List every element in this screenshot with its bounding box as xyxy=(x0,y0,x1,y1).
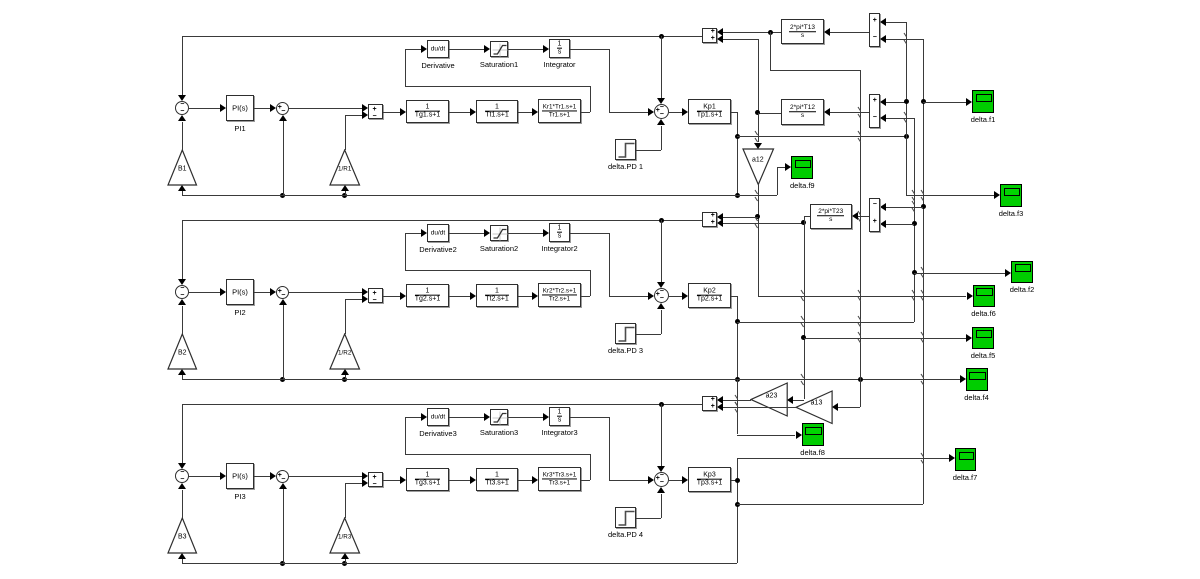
label delta.f6 xyxy=(971,309,996,318)
scope delta.f1 xyxy=(972,90,994,113)
arrow into delta.f9 xyxy=(785,163,791,171)
wire: S1b to subtract block xyxy=(289,108,362,109)
arrow into saturation xyxy=(484,45,490,53)
junction Ptie13 branch xyxy=(768,30,773,35)
wire: S1a to PI1 xyxy=(189,108,221,109)
arrow into sum S2c top xyxy=(657,282,665,288)
vertical bus delta.f3 xyxy=(923,39,924,505)
arrow into delta.f7 xyxy=(949,454,955,462)
wire: delta.f2 branch right xyxy=(737,322,914,323)
tie sum block T12 xyxy=(869,94,881,128)
wire crossing hop at 906.4,38.5 xyxy=(903,32,908,45)
arrow into subtract block + input xyxy=(362,472,368,480)
wire: tie-line signal to area1 sums xyxy=(182,36,702,37)
label Saturation2 xyxy=(480,244,518,253)
wire: a23 output to tie sum3 xyxy=(723,400,751,401)
wire crossing hop at 923.3,458.3 xyxy=(920,452,925,465)
wire: frequency feedback up to B2 xyxy=(182,374,183,379)
wire: governor to turbine TF xyxy=(449,296,470,297)
label Saturation3 xyxy=(480,428,518,437)
arrow into delta.f8 xyxy=(796,431,802,439)
gain a13 xyxy=(795,390,834,426)
label PI1 xyxy=(234,124,245,133)
wire: into scope delta.f7 xyxy=(737,458,949,459)
arrow tie sum3 input a13 xyxy=(717,403,723,411)
wire crossing hop at 757.6,195.4 xyxy=(754,189,759,202)
junction T23 plus input xyxy=(912,221,917,226)
wire: 1/R2 output right xyxy=(345,299,362,300)
arrow into T23 sum plus xyxy=(880,220,886,228)
wire: a12 signal to scope delta.f6 xyxy=(758,296,967,297)
wire: derivative to saturation xyxy=(449,49,484,50)
arrow into Kp2 xyxy=(682,292,688,300)
subtract block area 2 xyxy=(368,288,383,303)
tie sum block T13 xyxy=(869,13,881,47)
wire: area1 frequency feedback xyxy=(182,195,777,196)
sum S2b xyxy=(276,286,289,299)
wire: derivative loop up xyxy=(405,233,406,270)
wire crossing hop at 860.4,295.8 xyxy=(857,289,862,302)
arrow into 1/R2 gain xyxy=(341,369,349,375)
wire: derivative loop horizontal xyxy=(405,270,591,271)
label Derivative3 xyxy=(419,429,457,438)
arrow into B3 gain xyxy=(178,553,186,559)
junction Kp2/delta-f branch xyxy=(735,319,740,324)
arrow tie sum1 input Ptie12 xyxy=(717,35,723,43)
arrow T12 sum plus input xyxy=(880,98,886,106)
integrator block 1/s area 3 xyxy=(549,407,570,426)
wire: reheat output right xyxy=(581,296,590,297)
wire: area2 frequency feedback to delta.f4 xyxy=(182,379,960,380)
wire: reheat output up to derivative loop xyxy=(590,86,591,112)
arrow into PI3 xyxy=(220,472,226,480)
integrator block 1/s area 1 xyxy=(549,39,570,58)
wire: derivative loop horizontal xyxy=(405,86,591,87)
arrow into turbine TF xyxy=(470,476,476,484)
arrow tie sum2 input a12 xyxy=(717,213,723,221)
wire: feedback2 down to delta.f8 xyxy=(737,379,738,434)
wire: Ptie12 to tie sum1 xyxy=(723,39,758,40)
saturation block area 2 xyxy=(490,225,508,241)
transfer fcn 2*pi*T13/s xyxy=(781,19,824,44)
wire: area3 vertical delta.f3 bus segment xyxy=(737,458,738,563)
wire: B2 output up to S2a xyxy=(182,306,183,335)
arrow into derivative block xyxy=(421,45,427,53)
arrow T13 sum plus input xyxy=(880,18,886,26)
arrow into delta.f3 xyxy=(994,191,1000,199)
sum S1b xyxy=(276,102,289,115)
wire: PI1 to S1b xyxy=(254,108,270,109)
wire: Ptie13 across xyxy=(770,70,860,71)
label delta.f8 xyxy=(800,448,825,457)
label delta.f5 xyxy=(971,351,996,360)
wire: step output right xyxy=(636,150,661,151)
arrow into delta.f6 xyxy=(967,292,973,300)
wire: saturation to integrator xyxy=(508,49,543,50)
label delta.f4 xyxy=(964,393,989,402)
saturation block area 3 xyxy=(490,409,508,425)
PI controller PI1 xyxy=(226,95,254,121)
wire: T23 sum output to T23 block xyxy=(858,216,869,217)
arrow into derivative block xyxy=(421,413,427,421)
wire: integrator output to S2c xyxy=(609,296,648,297)
sum S3c (power sum area 3) xyxy=(654,472,669,487)
tie sum block T23 xyxy=(869,198,881,232)
junction feedback/1R1 xyxy=(342,193,347,198)
arrow into sum S2c bottom xyxy=(657,303,665,309)
wire: saturation to integrator xyxy=(508,233,543,234)
arrow tie sum3 input a23 xyxy=(717,396,723,404)
wire: governor to turbine TF xyxy=(449,112,470,113)
derivative block du/dt area 1 xyxy=(427,40,449,58)
wire: into derivative block xyxy=(405,49,421,50)
arrow into sum S1c bottom xyxy=(657,119,665,125)
step block delta.PD 1 xyxy=(615,139,636,160)
sum S1c (power sum area 1) xyxy=(654,104,669,119)
arrow into delta.f1 xyxy=(966,98,972,106)
wire: integrator output to S3c xyxy=(609,480,648,481)
arrow T12 sum minus input xyxy=(880,114,886,122)
wire: feedback up to S3b xyxy=(283,489,284,563)
wire: feedback up to 1/R3 xyxy=(345,558,346,563)
wire: tie signal down to sum S2a xyxy=(182,220,183,279)
wire: subtract to governor TF xyxy=(383,480,400,481)
wire: saturation to integrator xyxy=(508,417,543,418)
junction feedback2/a13 branch xyxy=(858,377,863,382)
vertical bus delta.f1 xyxy=(906,22,907,196)
sum S2a (ACE sum area 2) xyxy=(175,285,189,299)
arrow into saturation xyxy=(484,413,490,421)
wire crossing hop at 923.3,195.3 xyxy=(920,189,925,202)
reheat transfer fcn (Kr2*Tr2.s+1)/(Tr2.s+1) xyxy=(538,283,581,307)
wire crossing hop at 860.4,216.4 xyxy=(857,210,862,223)
wire: tie-line signal to area2 sums xyxy=(182,220,702,221)
junction T12 output xyxy=(755,110,760,115)
wire: Ptie23 to tie sum2 xyxy=(723,223,804,224)
junction delta.f1 scope feed xyxy=(921,99,926,104)
gain a23 xyxy=(750,382,789,418)
wire crossing hop at 860.4,112 xyxy=(857,106,862,119)
wire: 1/R3 output up xyxy=(345,483,346,518)
wire: derivative loop up xyxy=(405,49,406,86)
arrow into sum S2c left xyxy=(648,292,654,300)
wire: tie signal down to sum S1c xyxy=(661,36,662,98)
arrow into governor TF xyxy=(400,108,406,116)
wire: turbine to reheat TF xyxy=(518,296,532,297)
wire crossing hop at 803.6,321.6 xyxy=(800,315,805,328)
label Integrator2 xyxy=(541,244,577,253)
wire: integrator output right xyxy=(570,417,609,418)
arrow into delta.f2 xyxy=(1005,269,1011,277)
wire: T13 sum minus input xyxy=(886,39,923,40)
wire: step output right xyxy=(636,334,661,335)
arrow into T23 sum minus xyxy=(880,203,886,211)
arrow into a12 xyxy=(754,143,762,149)
wire: reheat output right xyxy=(581,480,590,481)
label delta.PD 1 xyxy=(608,162,643,171)
arrow into sum S3c bottom xyxy=(657,487,665,493)
scope delta.f5 xyxy=(972,327,994,350)
arrow into T13 block xyxy=(824,28,830,36)
label Saturation1 xyxy=(480,60,518,69)
label PI2 xyxy=(234,308,245,317)
arrow into integrator xyxy=(543,229,549,237)
power system TF Kp3/(Tp3.s+1) xyxy=(688,467,731,492)
wire: Ptie13 down to a13 xyxy=(860,70,861,380)
junction tie wire area2 xyxy=(659,218,664,223)
sum S1a (ACE sum area 1) xyxy=(175,101,189,115)
wire: into scope delta.f2 xyxy=(914,273,1005,274)
scope delta.f2 xyxy=(1011,261,1033,284)
wire: S2a to PI2 xyxy=(189,292,221,293)
wire crossing hop at 860.4,136 xyxy=(857,130,862,143)
wire: tie signal down to sum S2c xyxy=(661,220,662,282)
scope delta.f6 xyxy=(973,285,995,308)
integrator block 1/s area 2 xyxy=(549,223,570,242)
wire: tie signal down to sum S3a xyxy=(182,404,183,463)
junction delta.f1 on bus xyxy=(904,134,909,139)
wire: 1/R2 output up xyxy=(345,299,346,334)
arrow into B1 gain xyxy=(178,185,186,191)
wire: S3a to PI3 xyxy=(189,476,221,477)
wire: reheat output up to derivative loop xyxy=(590,270,591,296)
reheat transfer fcn (Kr3*Tr3.s+1)/(Tr3.s+1) xyxy=(538,467,581,491)
arrow into governor TF xyxy=(400,476,406,484)
wire: derivative loop up xyxy=(405,417,406,454)
arrow into B2 gain xyxy=(178,369,186,375)
label delta.f3 xyxy=(999,209,1024,218)
arrow into sum S1c left xyxy=(648,108,654,116)
junction feedback/1R3 xyxy=(342,561,347,566)
wire: into a13 xyxy=(838,407,860,408)
wire crossing hop at 737.2,407 xyxy=(734,401,739,414)
wire crossing hop at 757.6,136 xyxy=(754,130,759,143)
arrow into sum S3c left xyxy=(648,476,654,484)
wire: derivative to saturation xyxy=(449,233,484,234)
wire: 1/R3 output right xyxy=(345,483,362,484)
wire: derivative to saturation xyxy=(449,417,484,418)
scope delta.f3 xyxy=(1000,184,1022,207)
wire: step output up to S2c xyxy=(661,310,662,334)
wire: into derivative block xyxy=(405,417,421,418)
gain 1/R3 (droop) xyxy=(329,517,362,555)
wire: derivative loop horizontal xyxy=(405,454,591,455)
step block delta.PD 3 xyxy=(615,323,636,344)
wire crossing hop at 914.3,206.6 xyxy=(911,200,916,213)
arrow into sum S3b xyxy=(270,472,276,480)
junction Ptie23/delta.f5 xyxy=(801,335,806,340)
arrow into subtract block - input xyxy=(362,111,368,119)
arrow into T12 block xyxy=(824,108,830,116)
wire: a13 output to tie sum3 xyxy=(723,407,796,408)
wire: integrator output to S1c xyxy=(609,112,648,113)
wire crossing hop at 923.3,379.4 xyxy=(920,373,925,386)
derivative block du/dt area 3 xyxy=(427,408,449,426)
arrow into turbine TF xyxy=(470,292,476,300)
wire: governor to turbine TF xyxy=(449,480,470,481)
wire: into scope delta.f1 xyxy=(923,102,966,103)
arrow into subtract block - input xyxy=(362,295,368,303)
wire: frequency feedback up to B3 xyxy=(182,558,183,563)
wire: integrator output down xyxy=(609,49,610,112)
arrow into PI2 xyxy=(220,288,226,296)
arrow into governor TF xyxy=(400,292,406,300)
subtract block area 1 xyxy=(368,104,383,119)
label delta.f7 xyxy=(953,473,978,482)
arrow into reheat TF xyxy=(532,476,538,484)
junction feedback/1R2 xyxy=(342,377,347,382)
arrow into sum S3c top xyxy=(657,466,665,472)
arrow into PI1 xyxy=(220,104,226,112)
wire: feedback up to 1/R2 xyxy=(345,374,346,379)
junction delta.f1/T12 plus xyxy=(904,99,909,104)
wire: feedback up to S2b xyxy=(283,305,284,379)
sum S3b xyxy=(276,470,289,483)
wire: feedback up to 1/R1 xyxy=(345,190,346,195)
arrow into sum S1c top xyxy=(657,98,665,104)
wire: step output right xyxy=(636,518,661,519)
reheat transfer fcn (Kr1*Tr1.s+1)/(Tr1.s+1) xyxy=(538,99,581,123)
label Derivative xyxy=(421,61,454,70)
wire: Kp1 output down xyxy=(737,112,738,196)
label Derivative2 xyxy=(419,245,457,254)
arrow into reheat TF xyxy=(532,108,538,116)
step block delta.PD 4 xyxy=(615,507,636,528)
junction Kp2/feedback2 xyxy=(735,377,740,382)
wire crossing hop at 860.4,337.8 xyxy=(857,331,862,344)
wire: 1/R1 output right xyxy=(345,115,362,116)
wire: delta.f3 scope feed xyxy=(906,195,994,196)
wire: turbine to reheat TF xyxy=(518,112,532,113)
arrow into sum S1a top xyxy=(178,95,186,101)
gain B3 (frequency bias) xyxy=(167,517,199,555)
wire: Kp1 output right xyxy=(731,112,737,113)
wire: B1 output up to S1a xyxy=(182,122,183,151)
wire: a12 signal to tie sum2 xyxy=(723,217,758,218)
arrow into subtract block - input xyxy=(362,479,368,487)
arrow tie sum1 input Ptie13 xyxy=(717,28,723,36)
arrow into 1/R3 gain xyxy=(341,553,349,559)
wire: Ptie13 down xyxy=(770,32,771,70)
governor transfer fcn 1/(Tg3.s+1) xyxy=(406,468,449,491)
tie sum block area1 xyxy=(702,28,717,43)
wire: Kp3 output right xyxy=(731,480,737,481)
junction Kp1/feedback1 xyxy=(735,193,740,198)
wire: PI2 to S2b xyxy=(254,292,270,293)
wire: integrator output right xyxy=(570,233,609,234)
wire: T12 sum plus input xyxy=(886,102,906,103)
wire crossing hop at 757.8,222.7 xyxy=(754,216,759,229)
label PI3 xyxy=(234,492,245,501)
arrow into sum S2b bottom xyxy=(279,299,287,305)
arrow into integrator xyxy=(543,45,549,53)
wire: subtract to governor TF xyxy=(383,112,400,113)
power system TF Kp1/(Tp1.s+1) xyxy=(688,99,731,124)
wire: step output up to S1c xyxy=(661,126,662,150)
wire: down into a13 input xyxy=(860,379,861,406)
governor transfer fcn 1/(Tg1.s+1) xyxy=(406,100,449,123)
wire: area3 frequency feedback xyxy=(182,563,737,564)
arrow into sum S1a bottom xyxy=(178,115,186,121)
wire crossing hop at 914.3,295.8 xyxy=(911,289,916,302)
wire: into scope delta.f8 xyxy=(737,435,795,436)
wire: T23 output down xyxy=(804,216,805,399)
arrow into subtract block + input xyxy=(362,104,368,112)
transfer fcn 2*pi*T23/s xyxy=(810,204,852,229)
arrow into 1/R1 gain xyxy=(341,185,349,191)
wire: feedback up to S1b xyxy=(283,121,284,195)
gain 1/R1 (droop) xyxy=(329,149,362,187)
arrow tie sum2 input Ptie23 xyxy=(717,219,723,227)
sum S3a (ACE sum area 3) xyxy=(175,469,189,483)
wire: T12 output left xyxy=(758,113,781,114)
wire: into derivative block xyxy=(405,233,421,234)
wire: T13 sum plus input xyxy=(886,22,906,23)
saturation block area 1 xyxy=(490,41,508,57)
label delta.f9 xyxy=(790,181,815,190)
power system TF Kp2/(Tp2.s+1) xyxy=(688,283,731,308)
wire: T12 output down to a12 xyxy=(758,113,759,143)
wire: tie signal down to sum S1a xyxy=(182,36,183,95)
junction feedback/S1b xyxy=(280,193,285,198)
wire crossing hop at 914.3,195.3 xyxy=(911,189,916,202)
wire: integrator output down xyxy=(609,417,610,480)
junction delta.f3 branch xyxy=(735,502,740,507)
arrow into a13 xyxy=(832,403,838,411)
wire: Kp2 output right xyxy=(731,296,737,297)
arrow into sum S3a bottom xyxy=(178,483,186,489)
turbine transfer fcn 1/(Tt2.s+1) xyxy=(476,284,518,307)
arrow into subtract block + input xyxy=(362,288,368,296)
wire: up to scope delta.f9 xyxy=(777,167,778,195)
wire crossing hop at 803.6,295.8 xyxy=(800,289,805,302)
wire: tie-line signal to area3 sums xyxy=(182,404,702,405)
wire: reheat output up to derivative loop xyxy=(590,454,591,480)
wire: Ptie23 to scope delta.f5 xyxy=(804,338,966,339)
wire: frequency feedback up to B1 xyxy=(182,190,183,195)
junction Kp1/delta-f branch xyxy=(735,134,740,139)
arrow T13 sum minus input xyxy=(880,35,886,43)
junction feedback/S3b xyxy=(280,561,285,566)
wire: a12 output down xyxy=(758,184,759,296)
wire: T13 sum output to T13 block xyxy=(830,32,869,33)
arrow into Kp3 xyxy=(682,476,688,484)
wire crossing hop at 860.4,321.6 xyxy=(857,315,862,328)
wire: into scope delta.f9 xyxy=(777,167,785,168)
arrow into sum S2a top xyxy=(178,279,186,285)
label delta.PD 3 xyxy=(608,346,643,355)
junction feedback/S2b xyxy=(280,377,285,382)
junction tie wire area3 xyxy=(659,402,664,407)
derivative block du/dt area 2 xyxy=(427,224,449,242)
label Integrator3 xyxy=(541,428,577,437)
scope delta.f4 xyxy=(966,368,988,391)
wire: integrator output right xyxy=(570,49,609,50)
junction Ptie23 branch xyxy=(801,220,806,225)
gain a12 xyxy=(742,148,776,187)
gain 1/R2 (droop) xyxy=(329,333,362,371)
wire: turbine to reheat TF xyxy=(518,480,532,481)
arrow into integrator xyxy=(543,413,549,421)
vertical bus delta.f2 xyxy=(914,118,915,322)
wire: tie signal down to sum S3c xyxy=(661,404,662,466)
PI controller PI2 xyxy=(226,279,254,305)
wire crossing hop at 737.2,400 xyxy=(734,394,739,407)
arrow into a23 xyxy=(787,396,793,404)
wire: T23 sum plus input xyxy=(886,224,914,225)
label delta.PD 4 xyxy=(608,530,643,539)
arrow into Kp1 xyxy=(682,108,688,116)
